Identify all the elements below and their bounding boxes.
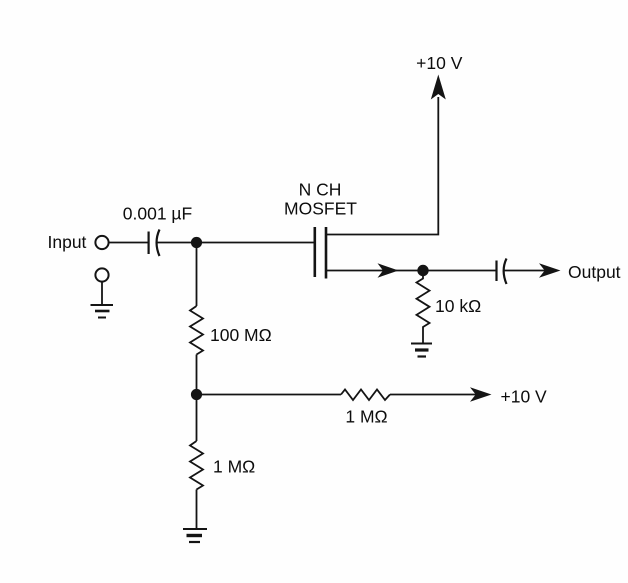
ground G3: [183, 529, 207, 542]
ground terminal circle below input: [95, 268, 108, 281]
resistor R2 100 MOhm: [190, 306, 203, 355]
svg-text:N CH: N CH: [299, 180, 342, 200]
wire R3 to +10V arrow: [390, 394, 476, 396]
wire source to node B: [326, 270, 423, 272]
wire drain to +10V supply: [326, 97, 438, 235]
ground G1: [91, 305, 114, 318]
node C junction dot: [191, 389, 202, 400]
svg-text:+10 V: +10 V: [416, 53, 463, 73]
label 1 MΩ (R4): [213, 457, 255, 477]
wire node A to R2: [196, 243, 198, 307]
capacitor C2 output coupling: [497, 259, 507, 285]
transistor Q1 N-channel MOSFET: [315, 227, 326, 279]
svg-text:0.001 µF: 0.001 µF: [123, 204, 192, 224]
capacitor C1 0.001 uF: [149, 230, 160, 257]
svg-text:1 MΩ: 1 MΩ: [213, 457, 255, 477]
wire R4 to ground G3: [196, 490, 198, 530]
svg-text:Input: Input: [48, 232, 87, 252]
label +10 V (right): [501, 387, 548, 407]
wire C2 to output arrow: [504, 270, 545, 272]
wire node B to C2: [423, 270, 496, 272]
resistor R4 1 MOhm vertical: [190, 441, 203, 490]
wire node A to gate: [197, 242, 315, 244]
svg-text:1 MΩ: 1 MΩ: [345, 407, 387, 427]
wire input terminal to C1: [109, 242, 149, 244]
arrow +10V supply (up): [431, 75, 446, 100]
svg-text:Output: Output: [568, 262, 621, 282]
label N CH MOSFET: [284, 180, 357, 219]
ground G2: [411, 344, 432, 357]
label +10 V (top): [416, 53, 463, 73]
svg-text:MOSFET: MOSFET: [284, 199, 357, 219]
node A junction dot: [191, 237, 202, 248]
wire node C to R4: [196, 395, 198, 442]
label Input: [48, 232, 87, 252]
wire node C to R3: [197, 394, 342, 396]
wire C1 to node A: [157, 242, 197, 244]
node B junction dot: [417, 265, 428, 276]
arrow Output: [539, 263, 561, 277]
label 100 MΩ: [210, 325, 272, 345]
resistor R3 1 MOhm horizontal: [341, 390, 390, 401]
svg-text:+10 V: +10 V: [501, 387, 548, 407]
label Output: [568, 262, 621, 282]
label 0.001 µF: [123, 204, 192, 224]
wire R2 to node C: [196, 355, 198, 395]
svg-text:10 kΩ: 10 kΩ: [435, 296, 481, 316]
label 1 MΩ (R3): [345, 407, 387, 427]
resistor R1 10 kOhm: [417, 276, 430, 343]
arrow on source wire: [378, 263, 399, 277]
arrow +10V bias (right): [470, 387, 492, 401]
label 10 kΩ: [435, 296, 481, 316]
input terminal circle: [95, 236, 108, 249]
wire terminal circle to ground G1: [101, 282, 103, 305]
svg-text:100 MΩ: 100 MΩ: [210, 325, 272, 345]
